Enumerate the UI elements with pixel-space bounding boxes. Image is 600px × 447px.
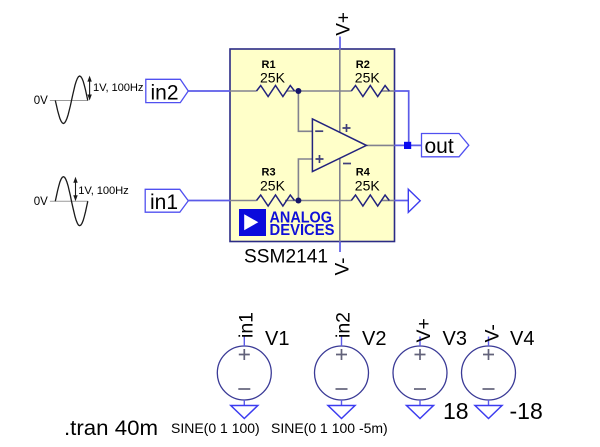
Analog Devices logo — [239, 209, 335, 239]
junction node row2 — [295, 198, 301, 204]
voltage source V3 — [393, 318, 467, 400]
spice directive .tran 40m — [64, 417, 158, 440]
svg-text:R4: R4 — [356, 166, 371, 178]
wire row1 inside box left — [230, 90, 257, 92]
svg-text:V-: V- — [333, 258, 354, 276]
wire in1 to box — [188, 200, 230, 202]
voltage source V4 — [462, 324, 535, 400]
op-amp U1 — [312, 119, 366, 172]
wire junction2 to op-amp non-inverting input — [298, 159, 312, 201]
svg-text:.tran 40m: .tran 40m — [64, 417, 158, 440]
voltage source V1 — [217, 312, 289, 400]
wire V- inside box — [339, 159, 341, 242]
svg-text:SINE(0 1 100): SINE(0 1 100) — [171, 420, 260, 436]
ground below V1 — [231, 400, 258, 419]
resistor R3 — [257, 166, 295, 206]
svg-text:SSM2141: SSM2141 — [244, 247, 328, 268]
svg-text:25K: 25K — [260, 69, 286, 85]
svg-text:0V: 0V — [34, 196, 48, 208]
input flag in1 — [145, 189, 188, 214]
svg-text:V+: V+ — [334, 12, 355, 36]
SSM2141 body box — [230, 49, 395, 242]
wire in2 to box — [188, 90, 230, 92]
wire row2 inside box left — [230, 200, 257, 202]
junction node row1 — [295, 88, 301, 94]
wire row1 between R1 and R2 — [286, 90, 351, 92]
svg-text:DEVICES: DEVICES — [270, 222, 335, 239]
power net V+ — [334, 12, 355, 49]
voltage source V2 — [315, 312, 387, 400]
node square out — [404, 142, 411, 149]
svg-text:R3: R3 — [262, 166, 276, 178]
svg-text:V1: V1 — [265, 328, 289, 350]
svg-text:25K: 25K — [260, 178, 286, 194]
power net V- — [333, 242, 354, 276]
svg-text:V-: V- — [482, 324, 504, 342]
label SSM2141 — [244, 247, 328, 268]
svg-text:0V: 0V — [34, 95, 48, 107]
svg-text:1V, 100Hz: 1V, 100Hz — [78, 185, 129, 197]
svg-text:in1: in1 — [150, 191, 178, 214]
svg-text:25K: 25K — [355, 69, 381, 85]
wire V+ inside box — [339, 49, 341, 132]
wire row2 between R3 and R4 — [285, 200, 351, 202]
value text 18 — [443, 398, 469, 424]
wire op-amp output to box edge — [366, 144, 394, 146]
wire out net — [394, 91, 421, 145]
resistor R4 — [351, 166, 389, 206]
value text SINE(0 1 100) — [171, 420, 260, 436]
svg-text:-18: -18 — [510, 398, 543, 424]
svg-text:out: out — [425, 135, 454, 158]
svg-text:in2: in2 — [333, 312, 355, 338]
svg-text:25K: 25K — [355, 178, 381, 194]
value text -18 — [510, 398, 543, 424]
annotation sine wave bottom — [34, 177, 129, 226]
svg-text:V3: V3 — [443, 328, 467, 350]
wire ref pin — [394, 200, 408, 202]
resistor R2 — [351, 59, 389, 97]
value text SINE(0 1 100 -5m) — [271, 420, 388, 436]
annotation sine wave top — [34, 76, 144, 124]
svg-text:in1: in1 — [236, 312, 258, 338]
svg-text:in2: in2 — [151, 82, 179, 105]
svg-text:V2: V2 — [362, 328, 386, 350]
wire row2 R4 to box edge — [381, 200, 394, 202]
wire row1 R2 to box edge — [381, 90, 394, 92]
ground below V4 — [475, 400, 502, 419]
svg-text:V+: V+ — [413, 318, 435, 342]
wire junction1 to op-amp inverting input — [298, 91, 312, 131]
svg-text:V4: V4 — [510, 328, 534, 350]
ref blank flag — [408, 189, 420, 212]
ground below V3 — [407, 400, 434, 419]
input flag in2 — [146, 79, 189, 104]
ground below V2 — [328, 400, 355, 419]
resistor R1 — [257, 59, 295, 97]
svg-text:18: 18 — [443, 398, 469, 424]
svg-text:SINE(0 1 100 -5m): SINE(0 1 100 -5m) — [271, 420, 388, 436]
output flag out — [422, 134, 469, 159]
svg-text:1V, 100Hz: 1V, 100Hz — [93, 82, 144, 94]
